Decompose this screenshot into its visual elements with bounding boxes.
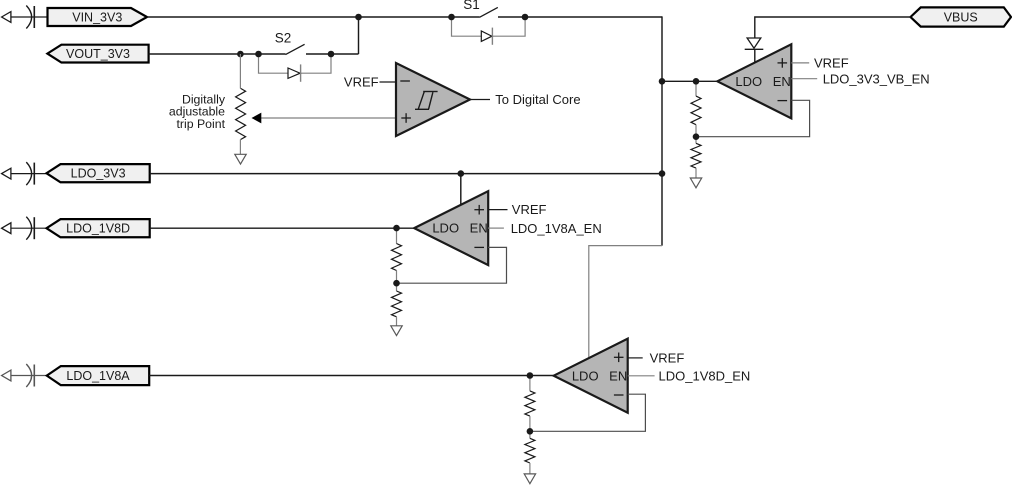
resistor R1 digitally adjustable trip point : top lead [239, 54, 241, 88]
net tag VOUT_3V3 [47, 45, 148, 63]
wire U4 VREF stub [628, 357, 643, 359]
resistor R6 lead [529, 376, 531, 391]
wire VIN_3V3 rail (right of S1) to corner [498, 16, 662, 18]
wire U3 VREF stub [488, 209, 508, 211]
wire R5 to ground [396, 317, 398, 326]
node U2 input rail [659, 78, 666, 85]
connector arc [26, 6, 31, 29]
wire VREF to comparator minus [380, 81, 397, 83]
off-page connector triangle [2, 223, 11, 234]
resistor R6 body [525, 391, 535, 416]
wire R3 to ground [695, 168, 697, 178]
node U3 apex / divider top [393, 225, 400, 232]
wire connector to tag [11, 375, 47, 377]
svg-text:LDO: LDO [432, 221, 459, 236]
net tag VIN_3V3 [48, 8, 148, 26]
wire U2 EN stub [791, 78, 817, 80]
resistor R4 body [392, 244, 402, 271]
resistor R7 body [525, 438, 535, 463]
connector bar [33, 365, 35, 387]
wire connector to tag [11, 16, 47, 18]
net tag LDO_1V8D [47, 219, 150, 237]
op-amp U3 LDO_1V8A regulator [414, 191, 488, 265]
wire vertical VIN rail down to LDO_1V8A feed [661, 16, 663, 245]
svg-text:LDO_1V8A_EN: LDO_1V8A_EN [511, 221, 602, 236]
diode D1 symbol [481, 31, 492, 41]
wire connector to tag [11, 173, 47, 175]
wire comparator output [470, 99, 490, 101]
wire U3 feedback loop [397, 247, 507, 283]
arrowhead wiper [252, 113, 262, 124]
wire connector to tag [11, 227, 47, 229]
wire U2 feedback loop [696, 100, 810, 136]
switch S2 blade [286, 44, 305, 54]
connector bar [33, 6, 35, 28]
svg-text:trip Point: trip Point [176, 117, 225, 131]
comparator U1 plus pin mark [401, 117, 411, 119]
wire R4 to R5 [396, 271, 398, 292]
resistor R2 upper (U2 divider) leads [695, 81, 697, 96]
wire LDO_3V3 feed to LDO U2 [460, 174, 462, 205]
wire LDO U1 input stub [662, 80, 718, 82]
node U2 divider top [693, 78, 700, 85]
wire R7 to ground [529, 463, 531, 474]
node U4 input tap [527, 372, 534, 379]
svg-text:VREF: VREF [344, 75, 379, 90]
comparator U1 hysteresis glyph [415, 108, 429, 110]
resistor R4 lead [396, 228, 398, 243]
net tag VBUS [911, 7, 1012, 26]
svg-text:LDO_1V8D_EN: LDO_1V8D_EN [659, 368, 751, 383]
wire S2 right to VIN rail riser [306, 53, 359, 55]
node VIN riser junction [355, 14, 362, 21]
diode D3 (VBUS to LDO U2) [747, 38, 761, 48]
diode D2 symbol [288, 68, 300, 78]
node trip-resistor tap [237, 51, 244, 58]
ground (trip resistor) [235, 154, 246, 164]
svg-text:VREF: VREF [650, 351, 685, 366]
svg-text:VOUT_3V3: VOUT_3V3 [66, 47, 130, 61]
node U3 feedback tap [393, 280, 400, 287]
svg-text:To Digital Core: To Digital Core [495, 92, 580, 107]
node S1 left [448, 14, 455, 21]
connector bar [33, 163, 35, 185]
svg-text:VREF: VREF [512, 202, 547, 217]
node S2 left [255, 51, 262, 58]
node S2 right [328, 51, 335, 58]
wire LDO_1V8A feed path [589, 246, 662, 358]
wire U4 EN stub [628, 375, 655, 377]
wire comparator + input with wiper arrow [259, 117, 396, 119]
off-page connector triangle [2, 168, 11, 179]
connector arc [26, 364, 31, 387]
svg-text:EN: EN [470, 221, 488, 236]
node S1 right [522, 14, 529, 21]
ground (U3 divider) [391, 326, 402, 336]
wire R2 to R3 [695, 125, 697, 144]
wire R6 to R7 [529, 416, 531, 438]
off-page connector triangle [2, 12, 11, 23]
diode D1 bypass of S1 : wires [452, 17, 482, 36]
node U2 feedback tap [693, 133, 700, 140]
svg-text:LDO_1V8A: LDO_1V8A [66, 369, 130, 383]
svg-text:LDO: LDO [572, 368, 599, 383]
resistor R1 bottom lead [239, 140, 241, 155]
connector bar [33, 217, 35, 239]
svg-text:VBUS: VBUS [944, 10, 978, 24]
ground (U2 divider) [690, 178, 701, 188]
wire LDO_1V8A rail [149, 375, 554, 377]
net tag LDO_3V3 [47, 164, 150, 182]
wire U4 feedback loop [530, 394, 646, 431]
resistor R1 body [236, 88, 246, 139]
off-page connector triangle [2, 370, 11, 381]
connector arc [26, 217, 31, 240]
wire riser S2 to VIN rail [358, 17, 360, 54]
svg-text:VREF: VREF [814, 56, 849, 71]
svg-text:VIN_3V3: VIN_3V3 [72, 10, 122, 24]
svg-text:S1: S1 [463, 0, 480, 12]
ground (U4 divider) [524, 474, 535, 484]
node U4 feedback tap [527, 428, 534, 435]
svg-text:EN: EN [609, 368, 627, 383]
resistor R3 body [691, 143, 701, 168]
resistor R2 body [691, 96, 701, 125]
wire U3 EN stub [488, 227, 504, 229]
wire VOUT_3V3 to S2 [149, 53, 286, 55]
svg-text:LDO_3V3: LDO_3V3 [71, 167, 126, 181]
wire LDO_3V3 rail [150, 173, 662, 175]
node VIN rail / LDO_3V3 rail [659, 170, 666, 177]
diode D2 bypass of S2 : wires [259, 54, 289, 73]
svg-text:LDO_1V8D: LDO_1V8D [66, 222, 130, 236]
wire VIN_3V3 rail (left of S1) [147, 16, 480, 18]
node LDO_3V3 feed tap [458, 170, 465, 177]
wire LDO_1V8D rail [150, 227, 415, 229]
net tag LDO_1V8A [47, 366, 149, 385]
op-amp U4 LDO_1V8D regulator [554, 339, 628, 413]
connector arc [26, 162, 31, 185]
resistor R5 body [392, 291, 402, 317]
svg-text:S2: S2 [275, 31, 292, 46]
comparator U1 body [396, 63, 470, 136]
svg-text:LDO_3V3_VB_EN: LDO_3V3_VB_EN [823, 71, 930, 86]
comparator U1 minus pin mark [400, 80, 410, 82]
svg-text:LDO: LDO [735, 74, 762, 89]
svg-text:EN: EN [773, 74, 791, 89]
wire VBUS feed [755, 17, 911, 38]
switch S1 blade [480, 7, 498, 17]
wire U2 VREF stub [791, 62, 809, 64]
wire diode cathode to LDO U1 [754, 49, 756, 62]
op-amp U2 LDO_3V3 regulator [717, 44, 791, 118]
